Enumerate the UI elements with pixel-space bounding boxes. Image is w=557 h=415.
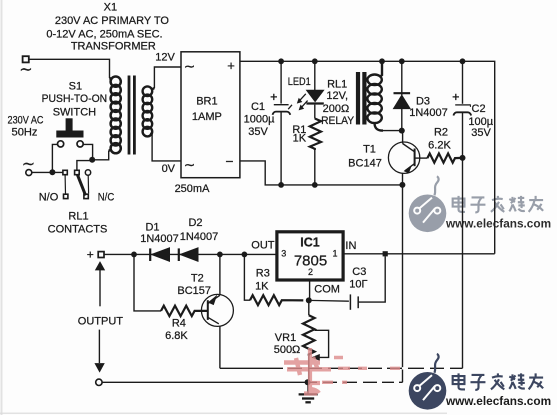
node: R3 branch: [242, 252, 248, 258]
node: COM junction: [306, 297, 312, 303]
svg-text:∼: ∼: [19, 62, 32, 79]
wire: lower AC line: [32, 171, 63, 173]
svg-text:RL1: RL1: [68, 211, 88, 223]
output + terminal: [98, 252, 104, 258]
node: relay coil top: [379, 58, 385, 64]
transformer X1 secondary coil: [143, 86, 155, 136]
svg-text:R4: R4: [172, 317, 186, 329]
svg-text:X1: X1: [104, 2, 117, 14]
red stamp stroke: vertical through ground: [308, 348, 312, 395]
red stamp stroke: blob over VR1 area: [284, 357, 331, 375]
node: R1 bottom: [312, 182, 318, 188]
scan border bottom edge: [0, 412, 447, 414]
svg-text:OUT: OUT: [251, 240, 275, 252]
relay contact arm end square: [84, 194, 88, 198]
svg-text:LED1: LED1: [288, 76, 311, 88]
svg-text:PUSH-TO-ON: PUSH-TO-ON: [42, 93, 108, 105]
svg-text:'C2: 'C2: [469, 103, 485, 115]
red stamp stroke: ground blob: [304, 383, 320, 394]
svg-text:230V AC PRIMARY TO: 230V AC PRIMARY TO: [55, 15, 170, 27]
svg-text:BR1: BR1: [196, 96, 217, 108]
watermark CJK text dark: [453, 373, 543, 390]
capacitor C1: [271, 61, 291, 185]
node: D3 top: [399, 58, 405, 64]
erase marks bottom rail: [317, 381, 399, 383]
relay contact N/O terminal (square): [64, 194, 68, 198]
svg-text:∼: ∼: [22, 156, 35, 173]
svg-text:2: 2: [308, 267, 313, 277]
svg-text:∼: ∼: [184, 157, 196, 173]
erase marks line B: [283, 367, 450, 369]
svg-text:www.elecfans.com: www.elecfans.com: [445, 394, 551, 408]
node: T1 emitter / ground rail junction: [399, 182, 405, 188]
svg-text:R3: R3: [256, 267, 270, 279]
svg-text:1: 1: [332, 249, 337, 259]
svg-text:OUTPUT: OUTPUT: [78, 316, 124, 328]
relay RL1 coil: [367, 61, 383, 130]
svg-text:C1: C1: [251, 101, 265, 113]
svg-text:1000µ: 1000µ: [244, 114, 275, 126]
node: C1 bottom: [278, 182, 284, 188]
wire: T2 collector to C2 bottom line: [220, 367, 463, 369]
node: C1 top: [278, 58, 284, 64]
switch S1 contact right: [77, 141, 83, 147]
transistor T1 BC147: [388, 131, 427, 174]
svg-text:IC1: IC1: [300, 235, 320, 249]
svg-text:BC147: BC147: [348, 157, 382, 169]
wire: secondary 0V lead: [152, 134, 181, 161]
svg-text:C3: C3: [352, 266, 366, 278]
wire: junction to transformer primary bottom: [92, 151, 109, 160]
wire: IC1 IN to right rail: [343, 253, 495, 255]
svg-text:35V: 35V: [248, 126, 268, 138]
svg-text:R2: R2: [434, 127, 448, 139]
svg-text:T2: T2: [191, 272, 204, 284]
bridge rectifier BR1 box: [181, 52, 240, 178]
node: IN / C3 junction (square dot): [383, 251, 388, 256]
svg-text:230V AC: 230V AC: [8, 115, 44, 127]
svg-text:N/O: N/O: [39, 192, 59, 204]
output - terminal circle: [96, 379, 102, 385]
svg-text:1K: 1K: [293, 132, 307, 144]
resistor R3: [250, 295, 303, 305]
wire: R1 to ground rail: [314, 150, 316, 185]
svg-text:CONTACTS: CONTACTS: [48, 224, 108, 236]
wire: T1 emitter down to bottom rail: [402, 173, 404, 382]
node: R2 / C2 junction: [460, 155, 466, 161]
svg-text:0V: 0V: [162, 163, 176, 175]
watermark logo circle (dark): [409, 372, 447, 410]
svg-text:N/C: N/C: [98, 192, 115, 204]
wire: junction to relay pole: [77, 161, 92, 171]
relay contact fixed left (square on AC line): [63, 170, 67, 174]
svg-text:COM: COM: [314, 284, 340, 296]
wire: S1 right contact to junction: [83, 144, 92, 158]
svg-text:D1: D1: [145, 222, 159, 234]
svg-text:BC157: BC157: [177, 285, 211, 297]
svg-text:3: 3: [281, 249, 286, 259]
svg-text:50Hz: 50Hz: [12, 127, 38, 139]
wire: secondary 12V lead: [154, 67, 181, 88]
wire: top AC line to transformer primary: [29, 59, 110, 78]
AC lower terminal (circle): [26, 170, 32, 176]
node: VR1 / ground junction: [305, 379, 311, 385]
potentiometer VR1: [303, 300, 329, 382]
svg-text:www.elecfans.com: www.elecfans.com: [445, 217, 551, 231]
svg-text:∼: ∼: [184, 58, 196, 74]
wire: left contact drop: [64, 175, 66, 195]
svg-text:−: −: [225, 153, 233, 169]
svg-text:D3: D3: [416, 95, 430, 107]
relay contact arm (moving): [77, 174, 85, 195]
svg-text:SWITCH: SWITCH: [53, 107, 96, 119]
svg-text:100µ: 100µ: [468, 116, 493, 128]
svg-text:IN: IN: [345, 240, 356, 252]
svg-text:6.2K: 6.2K: [428, 140, 451, 152]
switch S1 push button: [56, 118, 83, 137]
wire: IC1 COM lead: [309, 280, 311, 300]
svg-text:RL1: RL1: [327, 78, 347, 90]
node: R4 branch: [131, 252, 137, 258]
relay RL1 core: [356, 72, 367, 125]
svg-text:10Γ: 10Γ: [349, 278, 367, 290]
node: T2 emitter branch: [217, 252, 223, 258]
watermark CJK text gray: [453, 196, 543, 213]
node: C2 top: [460, 58, 466, 64]
svg-text:1N4007: 1N4007: [140, 233, 179, 245]
transformer X1 primary coil: [109, 77, 121, 154]
diode D3: [394, 61, 411, 130]
svg-text:0-12V AC, 250mA SEC.: 0-12V AC, 250mA SEC.: [46, 29, 162, 41]
LED1: [288, 61, 324, 118]
svg-text:+: +: [227, 58, 235, 73]
svg-text:1N4007: 1N4007: [180, 231, 219, 243]
regulator IC1 7805 box: [277, 232, 343, 280]
wire: bottom output rail: [102, 381, 403, 383]
relay contact pole (square): [75, 170, 80, 174]
diode D2: [179, 248, 198, 261]
svg-text:6.8K: 6.8K: [165, 330, 188, 342]
transformer X1 core: [128, 76, 136, 155]
wire: +12V top rail: [240, 61, 495, 254]
node: junction S1 left leg: [49, 169, 55, 175]
svg-text:TRANSFORMER: TRANSFORMER: [71, 40, 156, 52]
relay contact N/C circle: [85, 170, 90, 175]
wire: minus output of bridge to ground rail: [240, 161, 403, 185]
svg-text:12V,: 12V,: [326, 90, 348, 102]
svg-text:1N4007: 1N4007: [409, 107, 448, 119]
svg-text:1AMP: 1AMP: [192, 111, 222, 123]
wire: positive output rail: [104, 253, 277, 255]
capacitor C3: [309, 256, 385, 309]
wire: S1 left contact leg: [52, 144, 57, 172]
wire: N/C drop: [87, 175, 89, 193]
switch S1 contact left: [58, 141, 64, 147]
wire: R4 branch down: [134, 254, 161, 311]
transistor T2 BC157: [201, 254, 233, 368]
svg-text:12V: 12V: [155, 52, 175, 64]
capacitor C2: [453, 61, 472, 368]
svg-text:500Ω: 500Ω: [274, 344, 301, 356]
ground symbol: [299, 382, 318, 402]
wire: relay coil bottom to D3/T1 junction: [383, 130, 402, 132]
resistor R4: [161, 306, 208, 316]
svg-text:VR1: VR1: [275, 332, 296, 344]
svg-text:+: +: [87, 248, 94, 262]
node: LED1 top: [312, 58, 318, 64]
diode D1: [150, 248, 169, 261]
resistor R1: [310, 119, 321, 151]
wire: R3 branch down: [244, 254, 250, 300]
node: junction under S1 right: [89, 157, 95, 163]
resistor R2: [427, 154, 462, 163]
AC input terminal (top, square): [23, 56, 29, 62]
svg-text:T1: T1: [363, 144, 376, 156]
svg-text:250mA: 250mA: [175, 183, 211, 195]
watermark logo circle (gray): [409, 195, 447, 233]
red stamp dashes right: [322, 358, 400, 383]
svg-text:200Ω: 200Ω: [323, 103, 350, 115]
svg-text:RELAY: RELAY: [321, 115, 355, 127]
svg-text:35V: 35V: [471, 127, 491, 139]
scan border left edge: [1, 0, 3, 415]
svg-text:1K: 1K: [255, 281, 269, 293]
OUTPUT indicator arrows: [95, 262, 104, 372]
svg-text:D2: D2: [188, 217, 202, 229]
svg-text:S1: S1: [69, 81, 82, 93]
node: D3 / relay / T1 collector junction: [399, 128, 405, 134]
